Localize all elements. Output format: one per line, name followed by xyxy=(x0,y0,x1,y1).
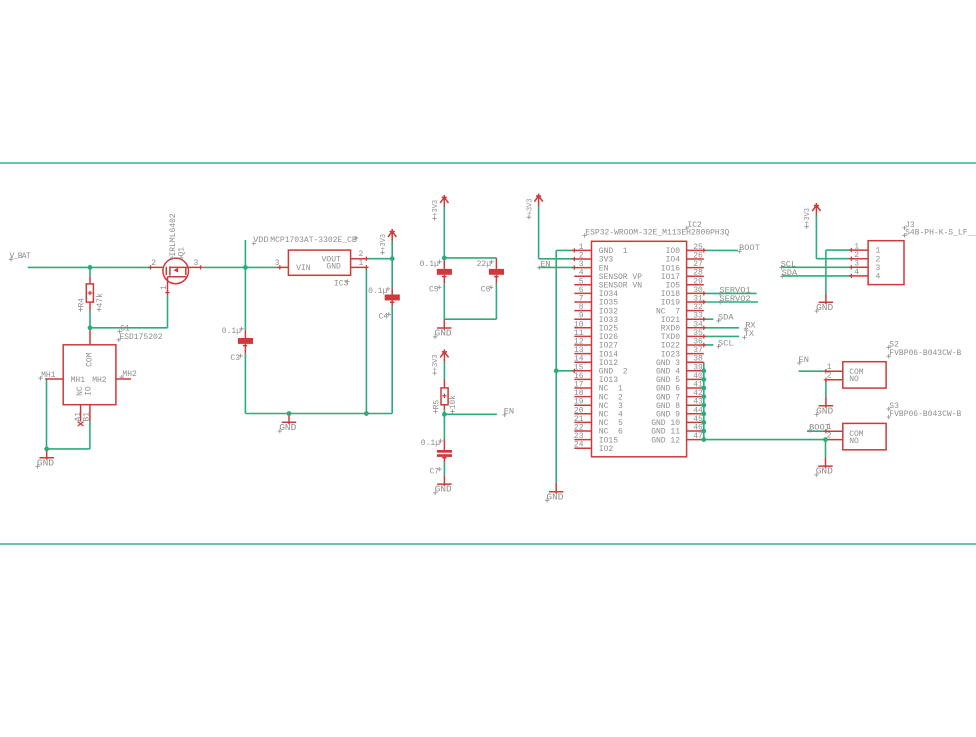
svg-text:TX: TX xyxy=(744,329,755,339)
svg-text:NO: NO xyxy=(849,437,859,446)
svg-text:IO: IO xyxy=(84,386,93,396)
svg-text:R5: R5 xyxy=(432,400,441,410)
svg-text:0.1µ: 0.1µ xyxy=(420,260,439,269)
svg-text:10k: 10k xyxy=(449,395,458,410)
svg-text:S4B-PH-K-S_LF__SN: S4B-PH-K-S_LF__SN xyxy=(905,228,976,237)
svg-text:GND: GND xyxy=(326,263,341,272)
svg-text:MCP1703AT-3302E_CB: MCP1703AT-3302E_CB xyxy=(270,236,357,245)
svg-text:ESD175202: ESD175202 xyxy=(119,333,162,342)
svg-text:B1: B1 xyxy=(82,412,91,422)
svg-text:3: 3 xyxy=(194,259,199,268)
svg-text:1: 1 xyxy=(359,259,364,268)
svg-text:+3V3: +3V3 xyxy=(432,354,440,371)
svg-text:+3V3: +3V3 xyxy=(380,234,388,251)
svg-text:GND: GND xyxy=(546,491,563,502)
svg-text:4: 4 xyxy=(876,273,881,282)
svg-text:1: 1 xyxy=(160,285,169,290)
svg-text:47: 47 xyxy=(693,432,703,441)
svg-text:VIN: VIN xyxy=(296,264,311,273)
svg-text:SCL: SCL xyxy=(718,338,734,348)
svg-text:C3: C3 xyxy=(230,354,240,363)
svg-text:+3V3: +3V3 xyxy=(526,198,534,215)
svg-text:22µ: 22µ xyxy=(477,260,492,269)
svg-text:IO2: IO2 xyxy=(599,445,614,454)
svg-text:2: 2 xyxy=(827,431,832,440)
svg-text:IRLML6402: IRLML6402 xyxy=(169,213,178,256)
svg-text:2: 2 xyxy=(151,259,156,268)
svg-text:BOOT: BOOT xyxy=(739,243,760,253)
svg-text:COM: COM xyxy=(86,352,95,367)
svg-text:R4: R4 xyxy=(77,298,86,308)
svg-text:C7: C7 xyxy=(429,467,439,476)
svg-text:EN: EN xyxy=(799,355,809,365)
svg-text:24: 24 xyxy=(574,441,584,450)
svg-text:EN: EN xyxy=(504,407,514,417)
svg-text:4: 4 xyxy=(854,268,859,277)
svg-text:EN: EN xyxy=(540,259,550,269)
svg-text:0.1µ: 0.1µ xyxy=(368,287,387,296)
svg-text:2: 2 xyxy=(359,250,364,259)
svg-text:+3V3: +3V3 xyxy=(804,208,812,225)
svg-text:GND: GND xyxy=(435,328,452,339)
svg-text:GND: GND xyxy=(279,422,296,433)
svg-text:SERVO2: SERVO2 xyxy=(719,294,750,304)
svg-text:FVBP06-B043CW-B: FVBP06-B043CW-B xyxy=(889,410,961,419)
svg-text:SDA: SDA xyxy=(718,313,734,323)
svg-text:C5: C5 xyxy=(429,286,439,295)
svg-text:ESP32-WROOM-32E_M113EH2800PH3Q: ESP32-WROOM-32E_M113EH2800PH3Q xyxy=(585,229,729,238)
svg-text:SDA: SDA xyxy=(782,268,798,278)
svg-text:MH1: MH1 xyxy=(71,376,86,385)
svg-text:3: 3 xyxy=(275,259,280,268)
svg-text:NO: NO xyxy=(849,375,859,384)
svg-text:IC3: IC3 xyxy=(334,280,349,289)
svg-text:V_BAT: V_BAT xyxy=(10,252,31,261)
svg-text:VDD: VDD xyxy=(253,235,269,245)
svg-text:S2: S2 xyxy=(889,340,899,349)
svg-text:MH1: MH1 xyxy=(41,371,56,380)
svg-text:2: 2 xyxy=(827,372,832,381)
svg-text:0.1µ: 0.1µ xyxy=(421,439,440,448)
svg-text:47k: 47k xyxy=(96,293,105,308)
svg-text:GND: GND xyxy=(816,405,833,416)
svg-text:C6: C6 xyxy=(481,286,491,295)
svg-text:MH2: MH2 xyxy=(122,370,137,379)
svg-text:FVBP06-B043CW-B: FVBP06-B043CW-B xyxy=(889,349,961,358)
svg-text:+3V3: +3V3 xyxy=(432,200,440,217)
svg-text:GND 12: GND 12 xyxy=(651,436,680,445)
svg-text:GND: GND xyxy=(435,484,452,495)
svg-text:Q1: Q1 xyxy=(178,247,187,257)
svg-text:C4: C4 xyxy=(379,313,389,322)
svg-text:0.1µ: 0.1µ xyxy=(222,327,241,336)
svg-text:GND: GND xyxy=(37,457,54,468)
svg-text:GND: GND xyxy=(816,466,833,477)
svg-text:GND: GND xyxy=(816,302,833,313)
svg-text:MH2: MH2 xyxy=(92,376,107,385)
